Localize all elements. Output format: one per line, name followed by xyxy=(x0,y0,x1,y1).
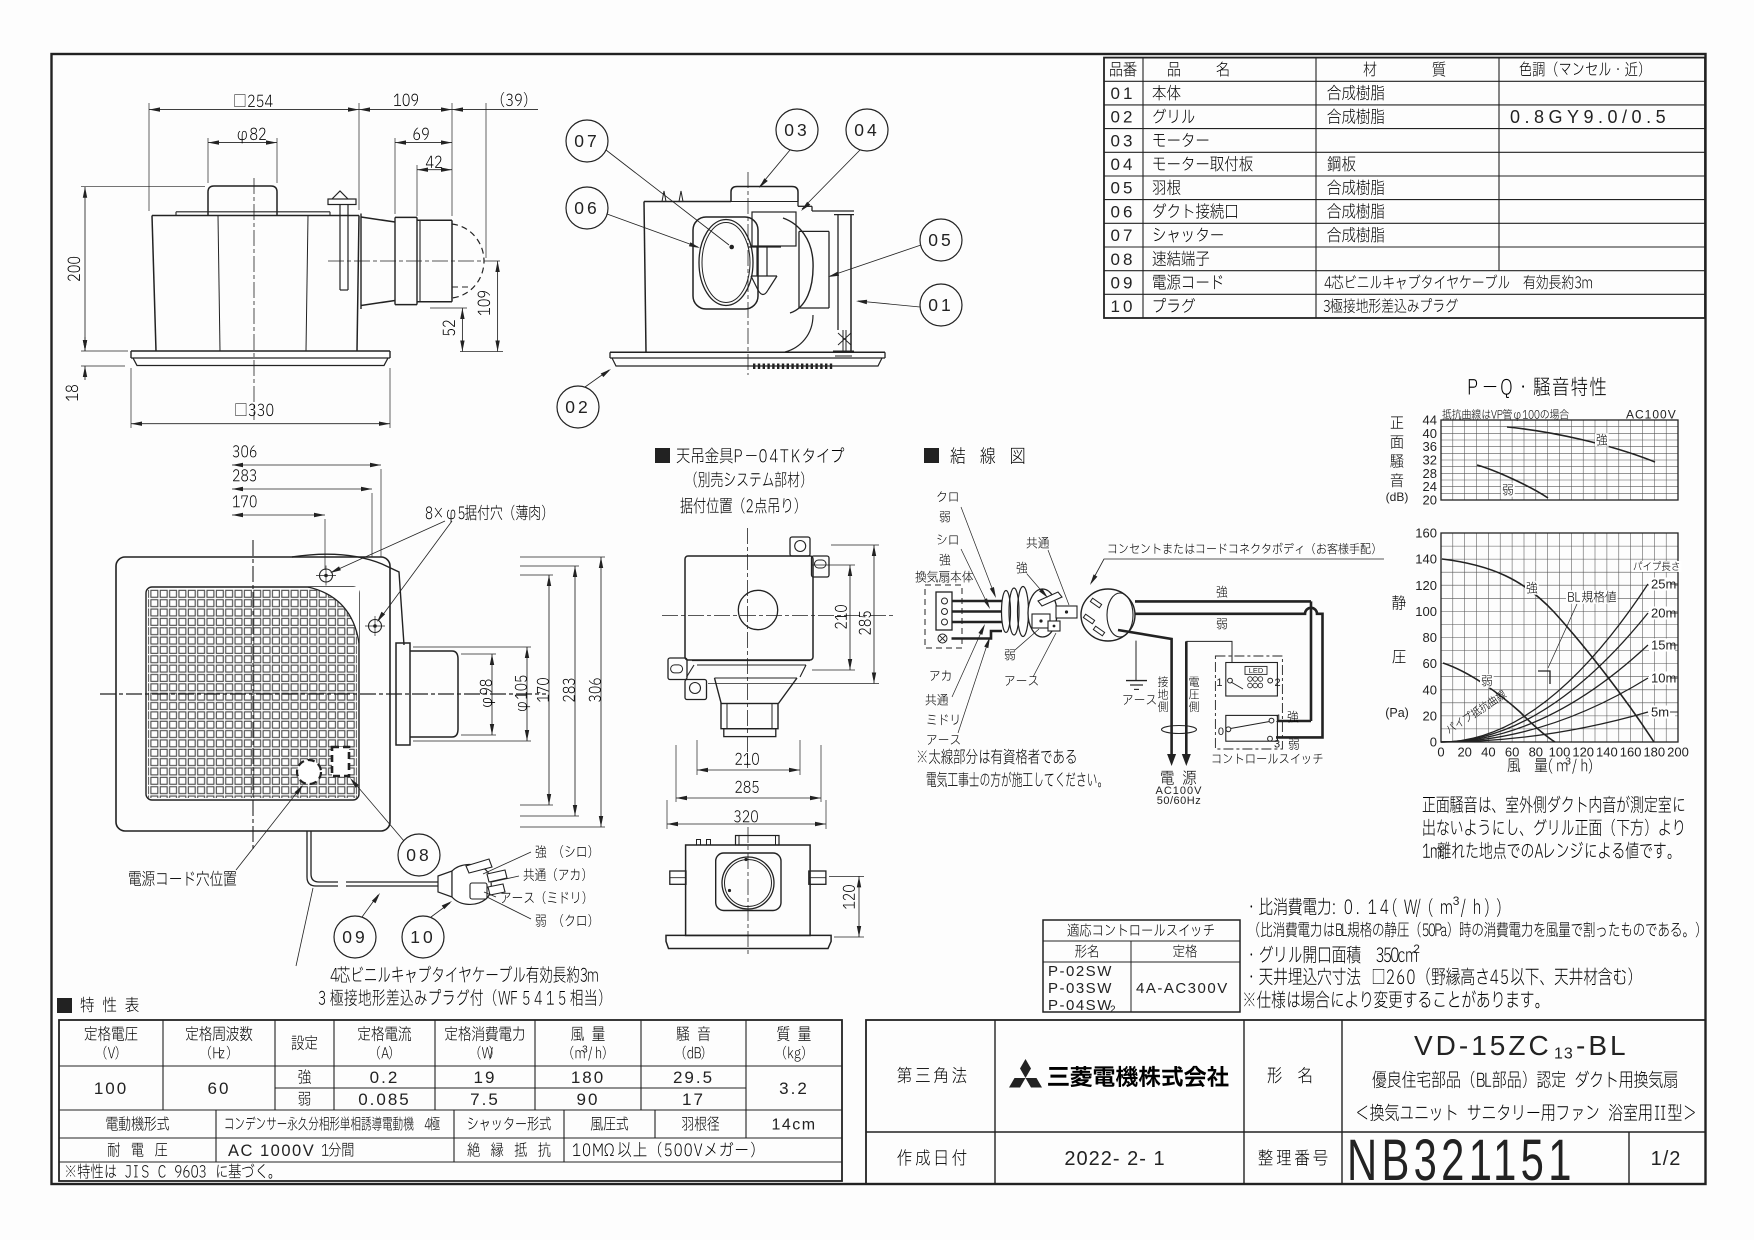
svg-text:120: 120 xyxy=(1415,578,1437,593)
svg-text:VD-15ZC: VD-15ZC xyxy=(1414,1030,1552,1061)
svg-text:03: 03 xyxy=(1111,131,1136,150)
svg-text:19: 19 xyxy=(474,1068,497,1087)
svg-text:03: 03 xyxy=(784,120,809,140)
svg-text:05: 05 xyxy=(1111,179,1136,198)
svg-text:(dB): (dB) xyxy=(1386,490,1409,504)
svg-text:05: 05 xyxy=(928,230,953,250)
svg-text:20: 20 xyxy=(1457,745,1471,760)
svg-text:120: 120 xyxy=(1572,745,1594,760)
svg-text:09: 09 xyxy=(1111,273,1136,292)
svg-text:02: 02 xyxy=(1111,108,1136,127)
svg-text:AC 1000V: AC 1000V xyxy=(228,1142,315,1160)
svg-text:-BL: -BL xyxy=(1576,1030,1629,1061)
svg-text:NB321151: NB321151 xyxy=(1347,1127,1576,1192)
svg-text:100: 100 xyxy=(1415,604,1437,619)
svg-text:160: 160 xyxy=(1620,745,1642,760)
svg-text:60: 60 xyxy=(1505,745,1519,760)
svg-text:04: 04 xyxy=(854,120,879,140)
svg-text:01: 01 xyxy=(928,295,953,315)
svg-text:LED: LED xyxy=(1249,666,1264,675)
svg-text:07: 07 xyxy=(574,131,599,151)
svg-text:7.5: 7.5 xyxy=(470,1090,500,1109)
svg-text:P-04SW: P-04SW xyxy=(1048,997,1113,1014)
svg-text:01: 01 xyxy=(1111,84,1136,103)
svg-text:07: 07 xyxy=(1111,226,1136,245)
svg-text:06: 06 xyxy=(574,198,599,218)
svg-text:2022- 2- 1: 2022- 2- 1 xyxy=(1064,1148,1165,1170)
svg-text:180: 180 xyxy=(571,1068,605,1087)
svg-text:1: 1 xyxy=(1216,677,1222,689)
svg-text:(Pa): (Pa) xyxy=(1385,706,1409,720)
svg-text:4A-AC300V: 4A-AC300V xyxy=(1136,980,1229,997)
svg-text:140: 140 xyxy=(1415,552,1437,567)
svg-text:5m: 5m xyxy=(1651,705,1669,720)
svg-text:13: 13 xyxy=(1554,1046,1574,1063)
svg-text:06: 06 xyxy=(1111,202,1136,221)
svg-text:2: 2 xyxy=(1413,942,1420,956)
svg-text:140: 140 xyxy=(1596,745,1618,760)
svg-text:40: 40 xyxy=(1423,682,1437,697)
svg-text:20: 20 xyxy=(1423,493,1437,508)
svg-text:1/2: 1/2 xyxy=(1651,1148,1682,1170)
svg-text:180: 180 xyxy=(1643,745,1665,760)
svg-text:1: 1 xyxy=(1276,713,1282,725)
svg-text:P-02SW: P-02SW xyxy=(1048,963,1113,980)
svg-text:60: 60 xyxy=(208,1079,231,1098)
svg-text:10: 10 xyxy=(410,927,435,947)
svg-text:3: 3 xyxy=(1565,756,1571,768)
svg-text:0.8GY9.0/0.5: 0.8GY9.0/0.5 xyxy=(1510,107,1670,127)
svg-text:P-03SW: P-03SW xyxy=(1048,980,1113,997)
svg-text:02: 02 xyxy=(565,397,590,417)
svg-text:09: 09 xyxy=(342,927,367,947)
svg-text:3.2: 3.2 xyxy=(779,1079,809,1098)
svg-text:2: 2 xyxy=(1110,1005,1116,1016)
svg-text:10: 10 xyxy=(1111,297,1136,316)
svg-text:200: 200 xyxy=(1667,745,1689,760)
svg-text:3: 3 xyxy=(582,1045,588,1056)
svg-text:160: 160 xyxy=(1415,526,1437,541)
svg-text:0: 0 xyxy=(1430,735,1437,750)
svg-text:80: 80 xyxy=(1529,745,1543,760)
svg-text:50/60Hz: 50/60Hz xyxy=(1157,795,1201,807)
svg-text:40: 40 xyxy=(1481,745,1495,760)
svg-text:29.5: 29.5 xyxy=(673,1068,714,1087)
svg-text:2: 2 xyxy=(1275,677,1281,689)
svg-text:90: 90 xyxy=(577,1090,600,1109)
svg-text:100: 100 xyxy=(94,1079,128,1098)
svg-text:80: 80 xyxy=(1423,630,1437,645)
svg-text:20: 20 xyxy=(1423,708,1437,723)
svg-text:14cm: 14cm xyxy=(771,1117,816,1134)
svg-text:08: 08 xyxy=(406,845,431,865)
svg-text:3: 3 xyxy=(1274,738,1280,750)
svg-text:17: 17 xyxy=(682,1090,705,1109)
svg-text:0: 0 xyxy=(1218,726,1224,738)
svg-text:0.2: 0.2 xyxy=(370,1068,400,1087)
svg-text:3: 3 xyxy=(1453,894,1460,908)
svg-text:08: 08 xyxy=(1111,250,1136,269)
svg-text:0: 0 xyxy=(1437,745,1444,760)
svg-text:04: 04 xyxy=(1111,155,1136,174)
svg-text:0.085: 0.085 xyxy=(358,1090,411,1109)
svg-text:60: 60 xyxy=(1423,656,1437,671)
